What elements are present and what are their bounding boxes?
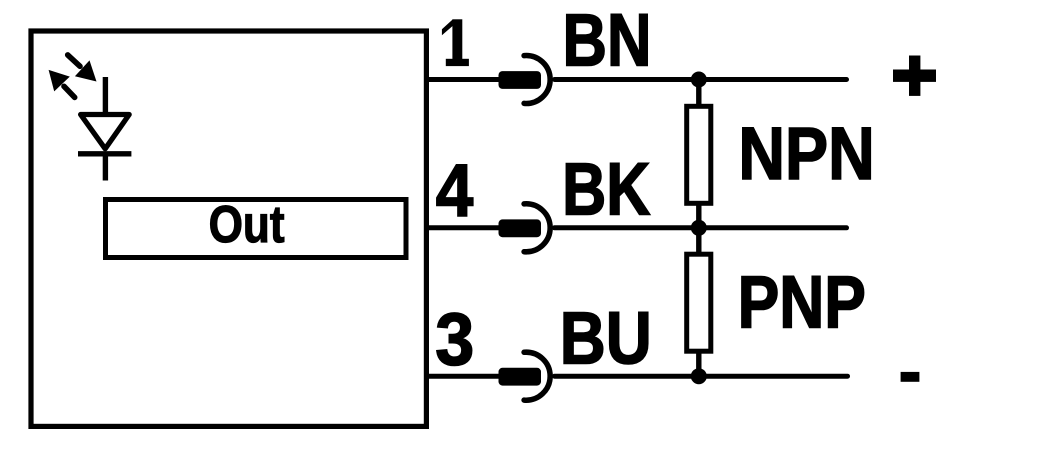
LED light arrow upper (incoming) [68,55,97,82]
connector socket arc pin1 [524,56,550,104]
wire pin1 from box [426,77,500,82]
LED D1 bottom lead [103,154,108,181]
connector plug pin3 [499,368,542,386]
svg-text:3: 3 [435,298,474,381]
terminal plus [893,56,936,96]
wire pin4 from box [426,225,500,230]
vertical load wire [696,80,701,377]
connector plug pin1 [499,71,542,89]
Out box [106,200,407,258]
svg-text:Out: Out [209,196,285,254]
svg-text:BU: BU [560,297,652,380]
connector socket arc pin4 [524,204,550,252]
wire pin1 to plus terminal [555,77,847,82]
LED D1 top lead [103,77,108,115]
sensor body box [31,31,426,426]
junction node pin4 [691,220,707,236]
LED D1 triangle [81,115,130,149]
LED light arrow lower (outgoing) [49,70,75,98]
wire pin3 to minus terminal [555,374,848,379]
junction node pin3 [691,368,707,384]
LED D1 cathode bar [78,151,131,156]
svg-text:PNP: PNP [738,261,866,344]
wire pin3 from box [426,374,500,379]
terminal minus [901,372,920,382]
resistor NPN load [687,106,711,203]
junction node pin1 [691,72,707,88]
svg-text:BK: BK [562,148,650,231]
connector plug pin4 [499,219,542,237]
svg-text:BN: BN [563,0,652,82]
connector socket arc pin3 [524,352,550,400]
resistor PNP load [687,254,711,351]
wire pin4 to right [555,225,847,230]
pin 1 label [442,19,469,66]
svg-text:NPN: NPN [738,112,874,195]
svg-text:4: 4 [436,149,474,232]
